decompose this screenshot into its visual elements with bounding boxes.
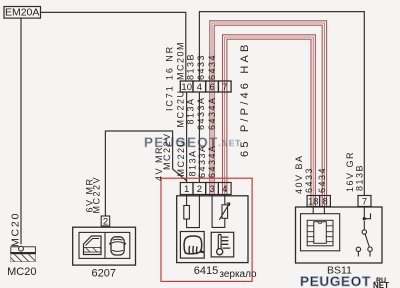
- svg-text:IC71 16 NR: IC71 16 NR: [165, 45, 175, 111]
- svg-text:65 Р/Р/46 НАВ: 65 Р/Р/46 НАВ: [239, 41, 251, 157]
- svg-text:EM20A: EM20A: [5, 7, 39, 19]
- svg-text:NET: NET: [373, 281, 389, 288]
- svg-text:4: 4: [197, 82, 202, 93]
- svg-text:6434: 6434: [317, 167, 327, 193]
- svg-text:16V GR: 16V GR: [345, 151, 355, 192]
- svg-text:3: 3: [209, 184, 214, 195]
- svg-text:6434A: 6434A: [207, 144, 217, 178]
- svg-text:MC20: MC20: [7, 266, 36, 278]
- svg-text:6207: 6207: [92, 268, 116, 280]
- svg-text:6433A: 6433A: [197, 144, 207, 178]
- svg-text:40V BA: 40V BA: [294, 154, 304, 194]
- svg-text:18: 18: [308, 196, 319, 207]
- svg-text:8: 8: [322, 196, 327, 207]
- svg-text:6433A: 6433A: [196, 96, 206, 130]
- svg-text:813B: 813B: [354, 164, 364, 191]
- svg-text:MC20M: MC20M: [175, 41, 185, 80]
- svg-text:2: 2: [103, 216, 108, 227]
- svg-text:1: 1: [184, 184, 189, 195]
- svg-text:MC22U: MC22U: [176, 138, 186, 176]
- svg-text:813B: 813B: [186, 53, 196, 80]
- svg-text:7: 7: [362, 196, 367, 207]
- svg-text:6415: 6415: [194, 265, 218, 277]
- svg-text:6: 6: [209, 82, 214, 93]
- svg-text:MC22V: MC22V: [92, 176, 102, 214]
- svg-text:зеркало: зеркало: [219, 269, 257, 280]
- svg-text:MC22U: MC22U: [175, 89, 185, 127]
- svg-text:MC22V: MC22V: [162, 132, 172, 170]
- svg-text:6433: 6433: [196, 54, 206, 80]
- svg-text:PEUGEOT: PEUGEOT: [300, 274, 371, 288]
- svg-text:6434A: 6434A: [207, 96, 217, 130]
- svg-text:2: 2: [197, 184, 202, 195]
- svg-text:813A: 813A: [188, 149, 198, 176]
- svg-text:7: 7: [222, 82, 227, 93]
- svg-text:MC20: MC20: [10, 212, 22, 247]
- svg-text:6434: 6434: [207, 54, 217, 80]
- svg-text:813A: 813A: [186, 97, 196, 124]
- svg-text:6433: 6433: [304, 167, 314, 193]
- svg-text:4: 4: [222, 184, 227, 195]
